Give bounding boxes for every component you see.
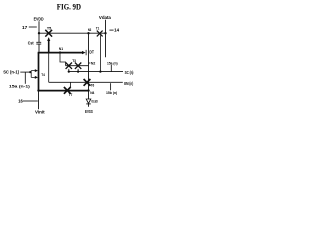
wire leader from SC(n-1) dash down to 15a (n-1) <box>24 72 26 84</box>
wire T3 gate stubs down to SC(n) row <box>69 69 78 72</box>
transistor T3 second X (dual gate, off) <box>75 63 81 69</box>
node junction T3 first gate on SC(n) <box>68 70 70 72</box>
svg-text:15a (n): 15a (n) <box>107 61 118 65</box>
wire leader from EM(n) row down to 15b (n) <box>110 83 112 90</box>
wire Vdata data-line column <box>105 20 107 57</box>
transistor T6 (X mark, off, bold) <box>84 79 91 86</box>
wire leader from 15a (n) to SC(n) row <box>110 65 112 72</box>
node junction Vdata column and top rail <box>104 32 106 34</box>
wire bold left column through T4 <box>38 53 40 91</box>
svg-text:Vinit: Vinit <box>35 109 45 114</box>
wire Vinit column <box>38 91 40 110</box>
capacitor Cst <box>36 33 41 52</box>
node junction T3 second gate on SC(n) <box>77 70 79 72</box>
wire top rail EVDD to Vdata <box>39 32 106 34</box>
arrow pointing up toward T5 <box>47 37 50 52</box>
svg-text:16: 16 <box>18 99 23 104</box>
svg-text:N3: N3 <box>88 28 91 32</box>
svg-text:N1: N1 <box>59 47 63 51</box>
svg-text:T5: T5 <box>47 26 52 30</box>
svg-text:Vdata: Vdata <box>99 15 112 20</box>
wire bold node-N1 row toward DT gate <box>38 52 84 54</box>
svg-text:N4: N4 <box>90 91 94 95</box>
node junction T1 gate and SC(n) row <box>99 70 101 72</box>
svg-text:SC (n-1): SC (n-1) <box>3 70 19 75</box>
node N4 junction dot <box>87 89 89 91</box>
transistor DT gate bar <box>85 50 87 55</box>
transistor T3 first X (dual gate, off) <box>66 63 72 69</box>
svg-text:T1: T1 <box>96 27 99 31</box>
svg-text:T7: T7 <box>69 93 73 97</box>
transistor T4 lower gate arrow <box>35 76 38 79</box>
node N3 junction dot on top rail <box>87 32 89 34</box>
svg-text:15a (n-1): 15a (n-1) <box>9 85 30 89</box>
arrow into DT gate <box>82 51 86 54</box>
svg-text:FIG. 9D: FIG. 9D <box>57 2 81 11</box>
svg-text:17: 17 <box>22 25 28 30</box>
svg-text:14: 14 <box>114 28 120 33</box>
transistor T1 (X mark, turned off) <box>97 31 103 37</box>
wire leader dash from 17 to EVDD column <box>29 26 37 28</box>
wire T1 gate column down to SC(n) row <box>99 35 101 71</box>
transistor T4 upper gate arrow <box>35 69 38 72</box>
svg-text:EM (n): EM (n) <box>124 81 133 86</box>
svg-text:EVDD: EVDD <box>34 17 44 22</box>
transistor T5 (X mark, turned off) <box>45 30 52 37</box>
wire leader dash for 14 <box>109 29 113 31</box>
svg-text:15b (n): 15b (n) <box>106 91 117 95</box>
wire EVDD supply column <box>38 21 40 33</box>
node N1 junction dot <box>59 51 61 53</box>
wire T4 gate fork vertical <box>30 71 32 78</box>
wire T7 gate stub from EM(n) row <box>70 82 72 87</box>
svg-text:T6: T6 <box>91 84 95 88</box>
svg-text:EVSS: EVSS <box>85 109 93 114</box>
node junction bold column and bottom row <box>37 89 39 91</box>
wire SC(n) scan row <box>69 71 123 73</box>
wire main column DT channel down to OLED <box>88 33 90 99</box>
wire T4 gate fork stubs <box>31 71 35 78</box>
wire leader dash for N2 <box>89 62 91 64</box>
node junction EVDD column and top rail <box>38 32 40 34</box>
transistor T7 (X mark, off, bold) <box>64 87 71 94</box>
wire leader dash from 16 to Vinit column <box>23 100 38 102</box>
wire T3 row to node N2 column <box>66 65 89 67</box>
wire T5 gate column down to EM(n) row <box>48 38 50 83</box>
svg-text:OLED: OLED <box>91 100 98 104</box>
node junction SC(n-1) dash and gate fork <box>29 71 31 73</box>
wire EM(n) emission row <box>49 81 123 83</box>
wire SC(n-1) dash <box>20 71 31 73</box>
wire bold bottom row Vinit branch to node N4 <box>39 90 89 92</box>
svg-text:DT: DT <box>89 49 94 54</box>
svg-text:SC (n): SC (n) <box>125 70 134 75</box>
svg-text:T3: T3 <box>72 59 76 63</box>
svg-text:Cst: Cst <box>28 41 34 46</box>
svg-text:T4: T4 <box>41 73 45 77</box>
wire jog from node N1 down to T3 row <box>60 53 66 65</box>
svg-text:N2: N2 <box>91 61 96 65</box>
diode OLED <box>86 99 91 107</box>
